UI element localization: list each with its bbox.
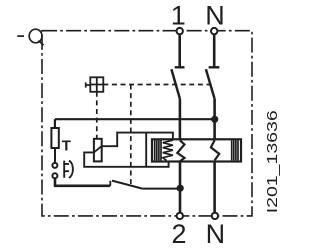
wire: relay return to CT secondary bottom bbox=[84, 152, 168, 166]
wire: pole N to CT bbox=[213, 99, 216, 140]
neutral primary winding bbox=[211, 140, 219, 160]
wire: phase CT to terminal 2 bbox=[179, 161, 182, 212]
svg-text:I201_13636: I201_13636 bbox=[264, 110, 281, 213]
pole N fixed contact T-bar bbox=[209, 66, 220, 68]
mechanical linkage (dashed) to trip relay bbox=[96, 92, 98, 139]
phase primary winding bbox=[177, 140, 184, 161]
CT secondary winding zigzag bbox=[163, 140, 173, 160]
wire: test button to auxiliary contact bbox=[54, 179, 111, 186]
wire: neutral CT to terminal N bottom bbox=[213, 161, 216, 212]
wire: pole 1 to CT bbox=[179, 99, 182, 141]
current transformer core box bbox=[152, 139, 241, 161]
test resistor bbox=[51, 128, 58, 148]
svg-text:2: 2 bbox=[171, 219, 186, 249]
test button contact circle lower bbox=[52, 173, 57, 178]
trip relay U1 bbox=[94, 139, 102, 162]
mechanical linkage (dashed) to pole blades bbox=[103, 84, 210, 86]
test button actuator bbox=[64, 161, 73, 178]
mechanism square with cross bbox=[90, 77, 103, 92]
manual actuator stub bbox=[86, 82, 91, 87]
wire: pole N supply stem bbox=[213, 34, 216, 67]
wire: relay to CT secondary top bbox=[102, 133, 173, 147]
node: junction on phase conductor bbox=[177, 185, 184, 192]
mechanical linkage (dashed) to auxiliary contact bbox=[130, 85, 132, 185]
svg-text:N: N bbox=[206, 219, 226, 249]
wire: resistor to test contact bbox=[54, 148, 56, 163]
CT core left hatch block bbox=[155, 140, 161, 160]
svg-text:T: T bbox=[62, 137, 71, 154]
device designator -Q bbox=[17, 29, 43, 45]
wire: pole 1 supply stem bbox=[178, 34, 181, 67]
svg-text:1: 1 bbox=[171, 1, 186, 31]
terminal 1 circle bbox=[177, 28, 183, 34]
terminal 2 circle bbox=[177, 213, 183, 219]
wire: down to test resistor bbox=[54, 119, 56, 128]
pole 1 moving contact blade bbox=[171, 69, 180, 99]
terminal N top circle bbox=[211, 28, 217, 34]
wire: test circuit top (to node on N) bbox=[55, 118, 215, 120]
test button contact circle upper bbox=[52, 163, 57, 168]
enclosure dash-dot outline bbox=[42, 31, 252, 216]
wire: auxiliary contact to phase node bbox=[142, 188, 180, 190]
node: junction on N conductor bbox=[211, 116, 218, 123]
terminal N bottom circle bbox=[212, 213, 218, 219]
trip relay diagonal bbox=[94, 146, 102, 152]
pole N moving contact blade bbox=[206, 69, 215, 99]
CT core right hatch block bbox=[232, 140, 238, 160]
pole 1 fixed contact T-bar bbox=[175, 66, 185, 68]
svg-text:N: N bbox=[205, 1, 225, 31]
auxiliary contact fixed tick bbox=[109, 181, 111, 186]
wire: branch to secondary return bbox=[145, 133, 147, 167]
auxiliary contact blade bbox=[112, 181, 142, 189]
